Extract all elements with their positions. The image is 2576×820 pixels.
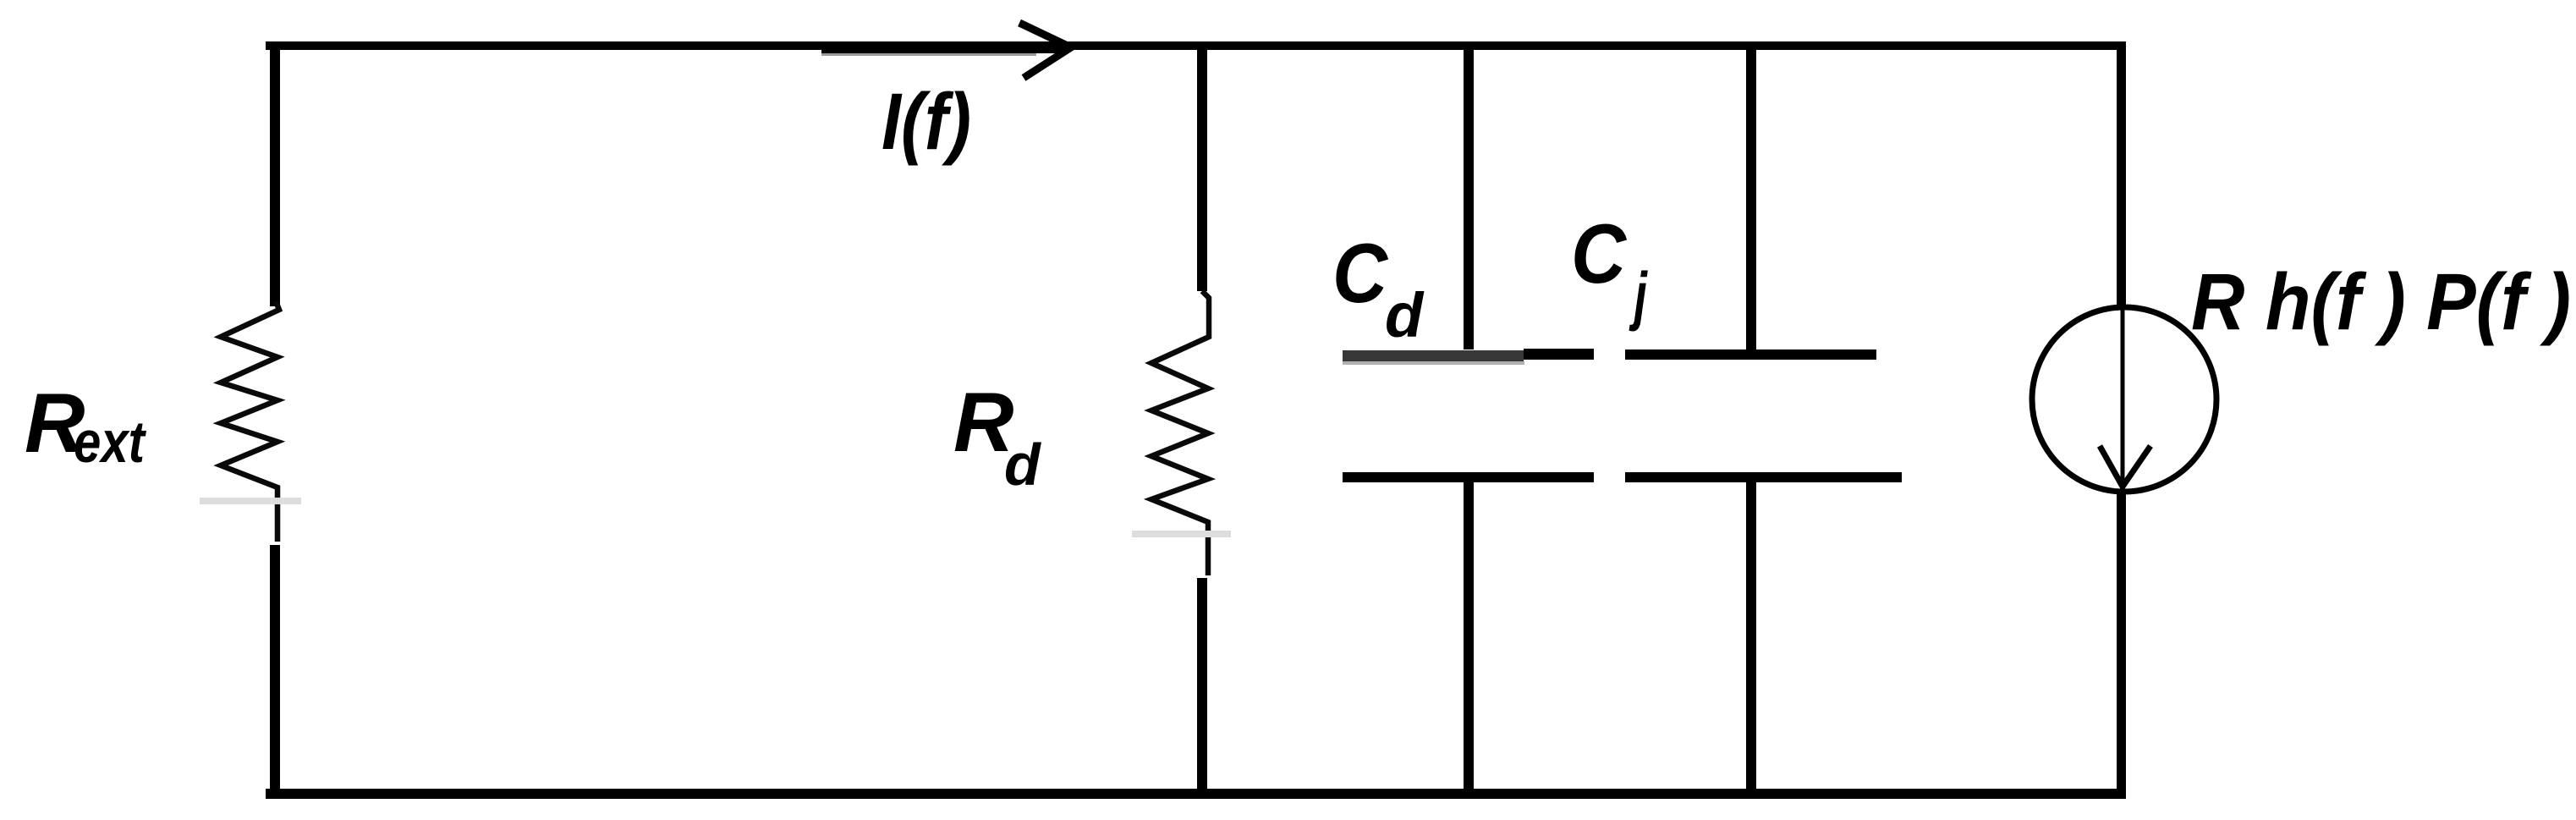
svg-text:I(f): I(f) [882,77,971,167]
svg-text:R h(f ) P(f ): R h(f ) P(f ) [2191,257,2571,347]
svg-text:d: d [1385,280,1425,350]
svg-text:C: C [1332,227,1389,321]
svg-text:C: C [1571,207,1628,301]
svg-text:ext: ext [74,409,146,475]
svg-text:d: d [1004,432,1041,498]
